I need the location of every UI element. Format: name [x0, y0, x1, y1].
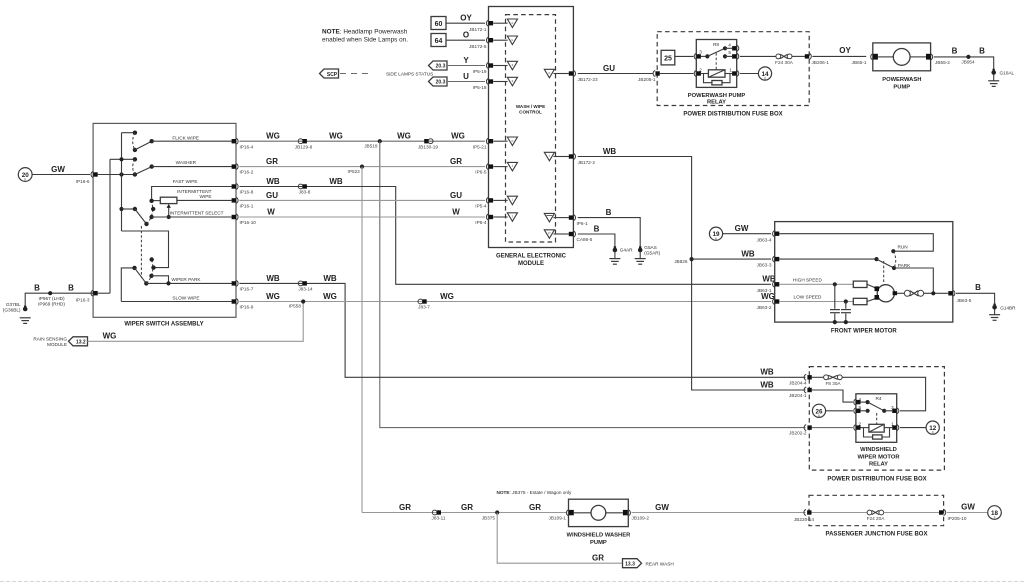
wire U to GEM IP5-18 — [447, 72, 487, 90]
svg-text:JB172-23: JB172-23 — [578, 77, 598, 82]
wire Y to GEM IP5-19 — [447, 56, 487, 74]
svg-text:II: II — [932, 431, 934, 435]
switch pin IP16-3 — [91, 290, 98, 296]
svg-text:JB375: JB375 — [482, 515, 496, 520]
svg-text:GR: GR — [399, 503, 411, 512]
svg-text:OY: OY — [460, 14, 472, 23]
svg-text:SLOW WIPE: SLOW WIPE — [172, 295, 199, 300]
svg-text:I: I — [512, 164, 513, 168]
svg-text:P: P — [548, 232, 550, 236]
note headlamp powerwash — [322, 29, 408, 44]
svg-text:PUMP: PUMP — [590, 540, 607, 546]
svg-text:IP16-8: IP16-8 — [240, 190, 254, 195]
svg-text:O: O — [463, 31, 469, 40]
svg-text:RELAY: RELAY — [869, 462, 888, 468]
fuse F24 30A — [740, 54, 805, 65]
svg-text:WG: WG — [397, 132, 411, 141]
svg-text:WIPER MOTOR: WIPER MOTOR — [857, 454, 900, 460]
svg-text:II: II — [994, 516, 996, 520]
svg-text:SIDE LAMPS STATUS: SIDE LAMPS STATUS — [386, 71, 433, 76]
wire GU intermittent wipe to GEM IP5-4 — [239, 191, 486, 209]
svg-text:II: II — [818, 414, 820, 418]
svg-text:WASHER: WASHER — [176, 160, 197, 165]
splice JB375 — [482, 510, 500, 520]
svg-text:IP16-1: IP16-1 — [240, 204, 254, 209]
powerwash pump relay box R8 — [688, 40, 746, 106]
intermittent select switch — [122, 199, 232, 227]
svg-text:WB: WB — [741, 250, 755, 259]
svg-text:WG: WG — [266, 292, 280, 301]
svg-text:IP16-10: IP16-10 — [240, 220, 257, 225]
svg-text:I: I — [549, 154, 550, 158]
motor armature — [875, 285, 898, 302]
high speed resistor — [779, 277, 876, 288]
svg-text:WB: WB — [323, 274, 337, 283]
svg-text:INTERMITTENT: INTERMITTENT — [177, 189, 212, 194]
wire B GEM CA86-5 to ground G4AR — [578, 224, 615, 247]
wire O from box 64 to GEM JB172-5 — [446, 31, 487, 49]
wire OY from box 60 to GEM JB172-1 — [446, 14, 487, 32]
grid reference circle 26 — [812, 404, 853, 418]
wire B GEM IP6-1 to ground G5AS — [578, 208, 640, 248]
svg-text:IP6-1: IP6-1 — [577, 221, 589, 226]
inline connector J83-14 — [298, 281, 313, 292]
switch pin IP16-1 — [232, 197, 254, 208]
splice JB826 — [674, 257, 693, 264]
reference tag 13.2 rain sensing module — [33, 337, 87, 348]
svg-text:o: o — [512, 139, 514, 143]
motor pin JB63-3 — [773, 256, 780, 262]
fast wipe feed inside switch — [152, 179, 232, 199]
svg-text:60: 60 — [435, 21, 443, 28]
svg-text:IP16-3: IP16-3 — [76, 298, 90, 303]
svg-text:IP6-5: IP6-5 — [475, 170, 487, 175]
ground G4AR — [609, 246, 633, 264]
switch pin IP16-7 — [232, 280, 254, 291]
svg-text:G10AL: G10AL — [1000, 71, 1015, 76]
svg-text:R8: R8 — [713, 42, 719, 47]
svg-text:U: U — [463, 72, 469, 81]
motor gang dashed link — [883, 261, 885, 284]
motor internal run feed — [779, 234, 933, 254]
pump pin JB65-2 — [931, 54, 951, 65]
reference tag SCP side lamps status — [320, 69, 434, 78]
svg-text:JB63-3: JB63-3 — [757, 263, 772, 268]
wire B pump to ground G10AL — [934, 46, 994, 70]
grid reference circle 19 — [709, 227, 722, 241]
svg-text:POWER DISTRIBUTION FUSE BOX: POWER DISTRIBUTION FUSE BOX — [827, 476, 926, 482]
svg-text:5: 5 — [728, 50, 731, 55]
svg-text:(G5AR): (G5AR) — [644, 250, 660, 255]
grid reference circle 12 — [900, 421, 939, 435]
wire GR rear wash branch — [497, 513, 622, 564]
svg-text:WASH / WIPE: WASH / WIPE — [516, 104, 545, 109]
svg-text:IP522: IP522 — [348, 169, 361, 174]
fuse holder box 25 — [661, 50, 675, 65]
relay R8 contact — [701, 46, 732, 70]
svg-text:G4AR: G4AR — [620, 248, 633, 253]
svg-text:JB130-19: JB130-19 — [418, 144, 438, 149]
svg-text:25: 25 — [664, 55, 672, 62]
GEM left pin IP5-18 — [486, 79, 493, 85]
wire WB GEM JB172-2 vertical trunk — [578, 147, 806, 390]
svg-text:4: 4 — [728, 43, 731, 48]
wire WB wiper park to JB204-4 — [239, 274, 805, 378]
ground G10AL — [988, 69, 1014, 87]
relay R8 coil — [701, 70, 732, 77]
svg-text:POWER DISTRIBUTION FUSE BOX: POWER DISTRIBUTION FUSE BOX — [683, 112, 782, 118]
svg-text:J83-11: J83-11 — [432, 516, 446, 521]
GEM left pin IP5-4 (W) — [486, 214, 493, 220]
svg-text:IP5-4: IP5-4 — [475, 220, 487, 225]
svg-text:CA86-5: CA86-5 — [577, 237, 593, 242]
front wiper motor box — [775, 222, 953, 335]
svg-text:JB204-1: JB204-1 — [789, 393, 807, 398]
svg-text:RELAY: RELAY — [707, 100, 726, 106]
svg-text:GU: GU — [450, 191, 462, 200]
switch pin IP16-6 — [91, 172, 98, 178]
power distribution fuse box (powerwash) dashed box — [657, 32, 809, 118]
svg-text:GR: GR — [461, 503, 473, 512]
svg-text:WB: WB — [603, 147, 617, 156]
inline connector JB129-8 — [295, 139, 313, 150]
svg-text:o: o — [549, 71, 551, 75]
relay R4 pin 2 — [854, 425, 861, 431]
svg-text:JB954: JB954 — [961, 60, 975, 65]
wiper switch assembly box — [93, 123, 236, 327]
svg-text:R4: R4 — [876, 396, 882, 401]
ground G14BR — [989, 304, 1016, 321]
reference tag 13.3 rear wash — [623, 559, 674, 568]
svg-text:3: 3 — [699, 49, 702, 54]
splice IP522 — [348, 165, 365, 174]
svg-text:WG: WG — [103, 332, 117, 341]
relay R8 pin 1 — [732, 71, 739, 77]
svg-text:GR: GR — [529, 503, 541, 512]
svg-text:WINDSHIELD WASHER: WINDSHIELD WASHER — [567, 533, 632, 539]
svg-text:NOTE: JB375 - Estate / Wagon o: NOTE: JB375 - Estate / Wagon only — [497, 490, 573, 495]
svg-text:GR: GR — [266, 157, 278, 166]
svg-text:IP205-10: IP205-10 — [948, 516, 967, 521]
svg-text:JB172-1: JB172-1 — [469, 27, 487, 32]
svg-text:W: W — [452, 207, 460, 216]
splice IP967 (LHD) / IP969 (RHD) — [34, 284, 90, 307]
power distribution fuse box (wiper relay) dashed box — [809, 367, 944, 483]
svg-text:GENERAL ELECTRONIC: GENERAL ELECTRONIC — [496, 254, 567, 260]
wash wipe control dashed box — [506, 15, 556, 242]
svg-text:WG: WG — [266, 132, 280, 141]
svg-text:IP16-7: IP16-7 — [240, 287, 254, 292]
svg-text:64: 64 — [435, 38, 443, 45]
GEM input symbol row OY — [493, 19, 517, 28]
wire GR washer row to GEM IP6-5 — [239, 157, 486, 175]
connector box 64 — [431, 34, 446, 47]
relay R8 pin 3 — [694, 53, 701, 59]
fuse box pin JB202-2 — [789, 425, 812, 436]
svg-text:PARK: PARK — [898, 263, 911, 268]
wire WG slow wipe to front wiper motor low speed — [239, 292, 774, 310]
switch pin IP16-9 — [232, 299, 254, 310]
svg-text:HIGH SPEED: HIGH SPEED — [793, 277, 823, 282]
svg-text:GW: GW — [961, 502, 975, 511]
svg-text:GU: GU — [266, 191, 278, 200]
GEM left pin IP5-19 — [486, 63, 493, 69]
svg-text:WB: WB — [329, 177, 343, 186]
svg-text:J83-7: J83-7 — [418, 305, 430, 310]
svg-text:B: B — [68, 284, 74, 293]
GEM output symbol B (IP6-1) — [544, 213, 569, 222]
wire WG flick wipe row to GEM IP5-21 — [239, 132, 486, 150]
svg-text:LOW SPEED: LOW SPEED — [794, 295, 822, 300]
svg-text:JB205-1: JB205-1 — [638, 77, 656, 82]
GEM left pin JB172-5 — [486, 37, 493, 43]
svg-text:W: W — [267, 207, 275, 216]
svg-text:WIPER SWITCH ASSEMBLY: WIPER SWITCH ASSEMBLY — [124, 321, 203, 327]
svg-text:F24 20A: F24 20A — [867, 516, 886, 521]
fuse F24 20A — [812, 510, 939, 521]
svg-text:FRONT WIPER MOTOR: FRONT WIPER MOTOR — [831, 328, 898, 334]
inline connector J83-8 — [298, 184, 311, 195]
svg-text:MODULE: MODULE — [47, 342, 67, 347]
wire JB205-1 to relay pin 2 — [660, 73, 694, 75]
GEM input symbol row WG — [493, 137, 517, 146]
svg-text:IP5-4: IP5-4 — [475, 204, 487, 209]
fuse box pin JB206-1 — [805, 53, 830, 64]
passenger junction fuse box dashed box — [809, 495, 944, 537]
svg-text:IP5-18: IP5-18 — [473, 85, 487, 90]
wire GW from circle 20 to IP16-6 — [32, 165, 90, 184]
relay R4 pin 3 — [892, 408, 899, 414]
svg-text:JB109-2: JB109-2 — [632, 516, 650, 521]
wire OY to powerwash pump — [812, 46, 866, 65]
relay R4 pin 1 — [892, 425, 899, 431]
GEM right pin CA86-5 — [569, 231, 593, 242]
relay R8 suppression resistor — [704, 74, 731, 85]
svg-text:B: B — [952, 46, 958, 55]
grid reference circle 14 — [740, 67, 772, 81]
svg-text:IP969 (RHD): IP969 (RHD) — [38, 301, 65, 306]
svg-text:GR: GR — [592, 554, 604, 563]
svg-text:WG: WG — [451, 132, 465, 141]
svg-text:u: u — [512, 38, 514, 42]
svg-text:JB826: JB826 — [674, 259, 688, 264]
svg-text:13.3: 13.3 — [625, 561, 635, 567]
svg-text:JB220-14: JB220-14 — [794, 517, 814, 522]
switch internal bus from IP16-6 — [98, 133, 169, 294]
motor park switch — [779, 251, 933, 293]
GEM input symbol row GR — [493, 162, 517, 171]
inline connector JB130-19 — [418, 139, 438, 150]
svg-text:13.2: 13.2 — [76, 339, 86, 345]
GEM input symbol row O — [493, 36, 517, 45]
svg-text:IP16-2: IP16-2 — [240, 170, 254, 175]
GEM left pin IP5-4 (GU) — [486, 197, 493, 203]
svg-text:JB204-4: JB204-4 — [789, 380, 807, 385]
svg-text:GR: GR — [450, 157, 462, 166]
relay R4 contact — [861, 400, 893, 424]
reference tag 20.3 (U) — [429, 77, 448, 86]
svg-text:F24 30A: F24 30A — [775, 60, 794, 65]
fuse box pin JB220-14 — [794, 510, 814, 523]
general electronic module box — [489, 7, 574, 267]
svg-text:JB519: JB519 — [364, 143, 378, 148]
GEM input symbol row W — [493, 213, 517, 222]
svg-text:WIPER PARK: WIPER PARK — [171, 277, 201, 282]
svg-text:JB202-2: JB202-2 — [789, 431, 807, 436]
svg-text:JB65-1: JB65-1 — [852, 60, 867, 65]
svg-text:B: B — [34, 284, 40, 293]
svg-text:GW: GW — [735, 224, 749, 233]
svg-text:WG: WG — [329, 132, 343, 141]
svg-text:o: o — [512, 21, 514, 25]
relay R8 pin 2 — [694, 71, 701, 77]
wire GW circle 19 to JB63-4 — [723, 224, 772, 242]
wire B motor to ground G14BR — [956, 283, 995, 305]
svg-text:WB: WB — [760, 380, 774, 389]
svg-text:20.3: 20.3 — [436, 64, 446, 70]
svg-text:PASSENGER JUNCTION FUSE BOX: PASSENGER JUNCTION FUSE BOX — [826, 531, 928, 537]
svg-text:G14BR: G14BR — [1000, 305, 1016, 310]
svg-text:GW: GW — [51, 165, 65, 174]
svg-text:(G36BL): (G36BL) — [3, 308, 21, 313]
fuse F8 30A — [812, 375, 926, 411]
flick wipe switch — [133, 131, 232, 153]
fuse box pin IP205-10 — [939, 510, 967, 522]
svg-text:I: I — [512, 215, 513, 219]
switch pin IP16-10 — [232, 214, 257, 225]
motor pin JB63-2 — [773, 299, 780, 305]
wire GR branch IP522 to washer pump row — [361, 167, 363, 513]
wire JB202-2 to relay R4 pin 2 — [812, 427, 853, 429]
windshield wiper motor relay box R4 — [856, 394, 900, 468]
GEM right pin JB172-23 — [569, 71, 598, 82]
svg-text:JB129-8: JB129-8 — [295, 144, 313, 149]
relay R4 pin 4 — [854, 399, 861, 405]
svg-text:B: B — [975, 283, 981, 292]
svg-text:OY: OY — [839, 46, 851, 55]
washer switch — [133, 157, 232, 177]
svg-text:Y: Y — [463, 56, 469, 65]
svg-text:SCP: SCP — [327, 72, 338, 78]
motor pin JB63-1 — [773, 281, 780, 287]
svg-text:WG: WG — [440, 292, 454, 301]
resistor select arrow — [167, 204, 171, 219]
svg-text:JB206-1: JB206-1 — [812, 60, 830, 65]
GEM left pin IP6-5 — [486, 164, 493, 170]
GEM right pin IP6-1 — [569, 215, 588, 226]
pump pin JB65-1 — [871, 54, 873, 60]
suppression capacitor 1 — [830, 282, 840, 324]
motor thermal breaker — [897, 290, 948, 296]
svg-text:PUMP: PUMP — [893, 85, 910, 91]
suppression capacitor 2 — [841, 299, 851, 324]
low speed resistor — [779, 295, 876, 305]
wire GW to circle 18 — [947, 502, 988, 512]
powerwash pump motor — [873, 49, 931, 66]
grid reference circle 20 — [18, 168, 32, 182]
svg-text:WINDSHIELD: WINDSHIELD — [860, 447, 897, 453]
svg-text:WIPE: WIPE — [200, 194, 212, 199]
GEM output symbol GU — [544, 69, 569, 78]
wire GR washer feed row — [362, 503, 566, 513]
svg-text:II: II — [24, 178, 26, 182]
svg-text:INTERMITTENT SELECT: INTERMITTENT SELECT — [170, 211, 224, 216]
svg-text:FAST WIPE: FAST WIPE — [173, 179, 198, 184]
connector box 60 — [431, 17, 446, 30]
wire GW pump to passenger junction fuse box — [632, 503, 806, 513]
svg-text:IP16-4: IP16-4 — [240, 144, 254, 149]
GEM right pin JB172-2 — [569, 154, 596, 165]
svg-text:F8 30A: F8 30A — [825, 381, 841, 386]
washer pump motor — [569, 505, 628, 520]
splice IP558 — [289, 299, 306, 308]
GEM output symbol WB — [544, 152, 569, 161]
GEM left pin JB172-1 — [486, 20, 493, 26]
ground G37BL (G36BL) — [3, 293, 93, 323]
svg-text:RUN: RUN — [898, 245, 908, 250]
switch pin IP16-2 — [232, 164, 254, 175]
svg-text:POWERWASH PUMP: POWERWASH PUMP — [688, 93, 746, 99]
switch gang dashed link — [140, 226, 142, 278]
inline connector J83-7 — [418, 299, 430, 310]
slow wipe row inside switch — [121, 295, 231, 301]
switch pin IP16-4 — [232, 138, 254, 149]
motor pin JB63-5 — [948, 290, 971, 303]
wire WB fast wipe to front wiper motor high speed — [239, 177, 775, 293]
svg-text:G37BL: G37BL — [6, 302, 21, 307]
svg-text:I: I — [512, 198, 513, 202]
svg-text:1: 1 — [729, 67, 732, 72]
svg-text:IP5-21: IP5-21 — [473, 145, 487, 150]
svg-text:JB63-4: JB63-4 — [757, 237, 772, 242]
intermittent wipe resistor — [154, 189, 232, 204]
switch pin IP16-8 — [232, 184, 254, 195]
fuse box pin JB204-1 — [789, 387, 812, 398]
relay R4 pin 5 — [854, 408, 861, 414]
wire JB204-1 to relay R4 pin 4 — [812, 390, 853, 402]
ground G5AS (G5AR) — [635, 245, 661, 264]
svg-text:JB65-2: JB65-2 — [935, 60, 950, 65]
svg-text:CONTROL: CONTROL — [519, 110, 542, 115]
wire W intermittent select to GEM IP5-4 — [239, 207, 486, 225]
GEM input symbol row GU — [493, 196, 517, 205]
svg-text:20.3: 20.3 — [436, 80, 446, 86]
svg-text:J83-14: J83-14 — [298, 287, 313, 292]
svg-text:JB172-2: JB172-2 — [578, 160, 596, 165]
svg-text:JB63-5: JB63-5 — [957, 298, 972, 303]
svg-text:WG: WG — [323, 292, 337, 301]
fuse box pin JB204-4 — [789, 374, 812, 385]
splice JB519 — [364, 139, 382, 148]
GEM input symbol row U — [493, 77, 517, 86]
inline connector J83-11 — [432, 510, 446, 520]
svg-text:WB: WB — [760, 368, 774, 377]
relay R8 pin 4 — [732, 45, 739, 51]
svg-text:POWERWASH: POWERWASH — [882, 77, 921, 83]
svg-text:J83-8: J83-8 — [299, 190, 311, 195]
powerwash pump box — [873, 43, 931, 91]
svg-text:B: B — [594, 224, 600, 233]
svg-text:GU: GU — [603, 64, 615, 73]
grid reference circle 18 — [988, 506, 1002, 520]
pump pin JB109-1 — [549, 510, 569, 521]
reference tag 20.3 (Y) — [429, 61, 448, 70]
GEM input symbol row Y — [493, 61, 517, 70]
svg-text:JB109-1: JB109-1 — [549, 516, 567, 521]
wire GU GEM JB172-23 to JB205-1 — [578, 64, 656, 82]
pump pin JB109-2 — [628, 510, 649, 521]
svg-text:IP16-6: IP16-6 — [76, 179, 90, 184]
